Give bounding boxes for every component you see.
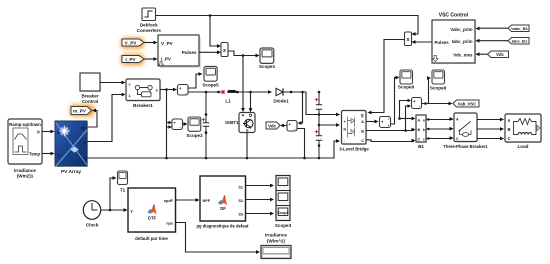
svg-text:pg diagnostique de defaut: pg diagnostique de defaut <box>196 224 249 229</box>
block MPPT controller <box>158 35 201 68</box>
block current sensor I1 <box>178 85 189 96</box>
svg-text:I_PV: I_PV <box>126 57 137 62</box>
block Product1 <box>221 43 228 57</box>
wire Vab sensor to Scope9 <box>391 76 400 124</box>
wire Iabc_B1 to VSC <box>476 39 509 43</box>
svg-text:Three-Phase Breaker1: Three-Phase Breaker1 <box>443 144 488 149</box>
wire B1 to breaker phase C <box>426 136 454 140</box>
svg-text:A: A <box>508 118 511 123</box>
wire breaker to load B <box>477 127 504 131</box>
wire vertical tap to voltage sensor <box>167 90 173 159</box>
svg-text:m: m <box>81 126 85 131</box>
Goto tag Vab_VSC <box>453 100 479 107</box>
svg-text:Ir: Ir <box>57 130 60 135</box>
svg-text:(W/m^2): (W/m^2) <box>267 239 285 244</box>
wire breaker to load A <box>477 118 504 122</box>
wire S1 to Scope3 <box>246 184 275 188</box>
svg-text:Irradiance: Irradiance <box>14 168 36 173</box>
svg-text:S2: S2 <box>238 199 243 203</box>
svg-text:x: x <box>223 48 226 54</box>
wire Diode1 to DC link <box>283 91 340 117</box>
svg-text:Iabc_B1: Iabc_B1 <box>512 39 528 44</box>
transistor IGBT1 <box>225 113 255 133</box>
scope Scope5 <box>202 67 219 88</box>
svg-text:c: c <box>423 138 425 142</box>
wire IGBT collector <box>249 92 253 112</box>
svg-text:DF: DF <box>220 206 226 211</box>
svg-text:I_PV: I_PV <box>161 57 172 62</box>
diode Diode1 <box>273 88 289 103</box>
wire PV minus bottom rail <box>87 139 340 159</box>
svg-text:A: A <box>418 119 421 123</box>
wire Breaker1 out to current sensor <box>160 88 177 92</box>
wire I_PV to MPPT <box>144 57 158 61</box>
wire PV plus to Breaker1 <box>87 93 126 142</box>
svg-text:1: 1 <box>129 94 131 98</box>
wire current sensor to L1 <box>188 91 221 94</box>
svg-text:C: C <box>361 139 364 143</box>
wire node A to B1 <box>398 117 415 121</box>
svg-text:Scope9: Scope9 <box>398 85 415 90</box>
wire Vdc sensor plus tap <box>298 92 303 125</box>
source Clock <box>83 201 100 228</box>
svg-text:Irradiance: Irradiance <box>265 233 287 238</box>
block Breaker1 <box>126 79 161 108</box>
svg-text:Scope8: Scope8 <box>430 86 447 91</box>
wire nps to display <box>176 223 261 254</box>
svg-text:a: a <box>423 119 425 123</box>
svg-text:b: b <box>423 128 425 132</box>
wire Deblock to Product2 <box>156 14 419 36</box>
block Three-Phase Breaker1 <box>443 113 488 149</box>
wire Clock branch to T1 <box>110 176 117 210</box>
svg-text:B1: B1 <box>418 144 424 149</box>
svg-text:Diode1: Diode1 <box>273 99 289 104</box>
wire B1 to breaker phase A <box>426 117 454 121</box>
capacitor C input <box>202 91 209 158</box>
wire current sensor to Scope5 <box>188 72 203 88</box>
wire B1 to breaker phase B <box>426 127 454 131</box>
wire tap B to Vab prim sensor <box>406 104 412 130</box>
svg-text:Scope3: Scope3 <box>275 223 292 228</box>
wire PV m to m_PV tag <box>87 109 97 127</box>
wire bridge C to B1 <box>366 139 416 143</box>
scope Scope2 <box>186 117 203 138</box>
wire S2 to Scope3 <box>246 198 275 202</box>
svg-text:L1: L1 <box>225 99 231 104</box>
block VSC Control <box>432 13 476 65</box>
svg-text:m_PV: m_PV <box>73 109 87 114</box>
svg-text:Scope2: Scope2 <box>186 133 203 138</box>
From tag Vdc <box>488 51 509 58</box>
wire Breaker Control to Breaker1 <box>100 81 126 85</box>
wire Pulses to Product1 <box>199 50 221 54</box>
wire bridge A to Vab sensor <box>366 120 379 124</box>
svg-text:PV Array: PV Array <box>61 169 81 175</box>
wire Vab prim to Scope8 and tag <box>422 76 453 105</box>
svg-text:C: C <box>418 138 421 142</box>
svg-text:npdF: npdF <box>164 199 174 203</box>
svg-text:T: T <box>57 153 60 158</box>
svg-text:Pulses: Pulses <box>182 50 197 55</box>
scope Scope1 <box>259 48 276 69</box>
wire voltage sensor to Scope2 <box>183 122 188 126</box>
svg-text:x: x <box>407 37 410 43</box>
block Vab prim sensor <box>412 98 422 109</box>
wire VSC pulses to Product2 <box>412 40 433 44</box>
block voltage sensor Vdc measure <box>287 121 297 132</box>
svg-text:3-Level Bridge: 3-Level Bridge <box>339 147 369 152</box>
From tag V_PV <box>121 38 144 49</box>
scope T1 <box>118 171 128 193</box>
svg-text:C: C <box>456 137 459 141</box>
display Irradiance (W/m^2) <box>261 233 291 259</box>
svg-text:Scope1: Scope1 <box>259 64 276 69</box>
block Breaker Control <box>80 73 101 104</box>
block Product2 <box>405 32 412 46</box>
wire node A to Vab prim sensor <box>400 99 412 119</box>
inductor L1 <box>221 90 235 103</box>
capacitor DC link upper <box>315 92 322 125</box>
svg-text:IGBT1: IGBT1 <box>225 120 239 125</box>
svg-text:Iabc_prim: Iabc_prim <box>452 39 473 44</box>
wire IGBT emitter <box>246 133 248 159</box>
wire Product2 to bridge gate <box>368 40 405 115</box>
svg-text:Vabc_B1: Vabc_B1 <box>511 26 528 31</box>
svg-text:DTF: DTF <box>148 216 157 221</box>
block default par time <box>128 188 177 241</box>
svg-text:Vdc_mes: Vdc_mes <box>453 53 473 58</box>
svg-text:B: B <box>418 128 421 132</box>
wire neutral to bridge <box>319 123 340 127</box>
svg-text:T1: T1 <box>120 188 126 193</box>
scope Scope8 <box>430 70 447 91</box>
svg-text:(Wm2)1: (Wm2)1 <box>17 174 34 179</box>
svg-text:Vabc_prim: Vabc_prim <box>450 27 472 32</box>
wire Clock to default par time <box>101 208 128 212</box>
svg-text:B: B <box>508 127 511 132</box>
wire npdF to pg block <box>176 198 200 202</box>
From tag I_PV <box>121 54 144 65</box>
wire Product1 to Scope1 and IGBT gate <box>228 51 260 112</box>
From tag Vabc_B1 <box>508 25 529 32</box>
wire Deblock branch to Product1 <box>210 16 221 48</box>
wire Vdc to VSC <box>476 52 488 56</box>
wire L1 to Diode1 <box>236 90 272 94</box>
svg-text:Vab_VSC: Vab_VSC <box>458 102 476 107</box>
capacitor DC link lower <box>315 124 322 158</box>
wire Ir to PV <box>42 130 55 134</box>
svg-text:S1: S1 <box>238 186 243 190</box>
svg-text:Scope: Scope <box>277 211 288 215</box>
svg-text:S3: S3 <box>238 213 243 217</box>
svg-text:Pulses: Pulses <box>435 40 450 45</box>
Goto tag Vdc <box>266 122 280 129</box>
svg-text:B: B <box>361 129 364 133</box>
wire V_PV to MPPT <box>144 41 158 45</box>
svg-text:Breaker1: Breaker1 <box>133 103 153 108</box>
wire S3 to Scope3 <box>246 212 275 216</box>
svg-text:Control: Control <box>82 99 98 104</box>
block voltage sensor V1 <box>172 119 183 130</box>
From tag Iabc_B1 <box>508 38 529 45</box>
svg-text:2: 2 <box>156 88 158 92</box>
svg-text:A: A <box>361 120 364 124</box>
scope stack Scope3 <box>275 176 292 229</box>
wire breaker to load C <box>477 137 504 141</box>
block Vab sensor bridge <box>380 117 391 128</box>
svg-text:Vdc: Vdc <box>268 124 277 129</box>
svg-text:N: N <box>344 128 347 132</box>
svg-text:nps: nps <box>166 222 173 226</box>
wire bridge B to B1 <box>366 128 416 132</box>
svg-text:V_PV: V_PV <box>161 41 174 46</box>
wire Temp to PV <box>42 152 55 156</box>
svg-text:NPF: NPF <box>203 199 211 203</box>
svg-text:default par time: default par time <box>135 236 168 241</box>
svg-text:Converters: Converters <box>137 28 162 33</box>
svg-text:Temp: Temp <box>29 152 40 157</box>
Goto tag m_PV <box>70 105 94 117</box>
block Load <box>505 114 542 149</box>
svg-text:Scope5: Scope5 <box>202 83 219 88</box>
svg-text:Deblock: Deblock <box>140 23 158 28</box>
svg-text:Ramp-up/down: Ramp-up/down <box>9 122 41 127</box>
block PV Array <box>55 121 88 175</box>
block 3-Level Bridge <box>339 111 369 152</box>
block Irradiance (Wm2)1 source <box>8 119 43 179</box>
svg-text:V_PV: V_PV <box>125 41 138 46</box>
svg-text:+: + <box>83 141 86 146</box>
wire Vabc_B1 to VSC <box>476 27 509 31</box>
svg-text:C: C <box>508 136 511 141</box>
svg-text:c: c <box>129 82 131 86</box>
svg-text:Clock: Clock <box>86 223 99 228</box>
svg-text:VSC Control: VSC Control <box>439 13 469 19</box>
block B1 measurement <box>416 115 427 149</box>
wire Vdc sensor to Vdc tag <box>280 124 287 128</box>
svg-text:Breaker: Breaker <box>81 94 98 99</box>
svg-text:A: A <box>456 118 459 122</box>
scope Scope9 <box>398 70 415 90</box>
svg-text:Vdc: Vdc <box>496 52 504 57</box>
block Deblock Converters <box>137 8 162 33</box>
wire Vdc sensor minus tap <box>297 129 305 159</box>
svg-text:Ir: Ir <box>37 130 40 135</box>
svg-text:g: g <box>361 112 364 117</box>
block pg diagnostique de defaut <box>196 176 249 229</box>
svg-text:Load: Load <box>518 144 529 149</box>
